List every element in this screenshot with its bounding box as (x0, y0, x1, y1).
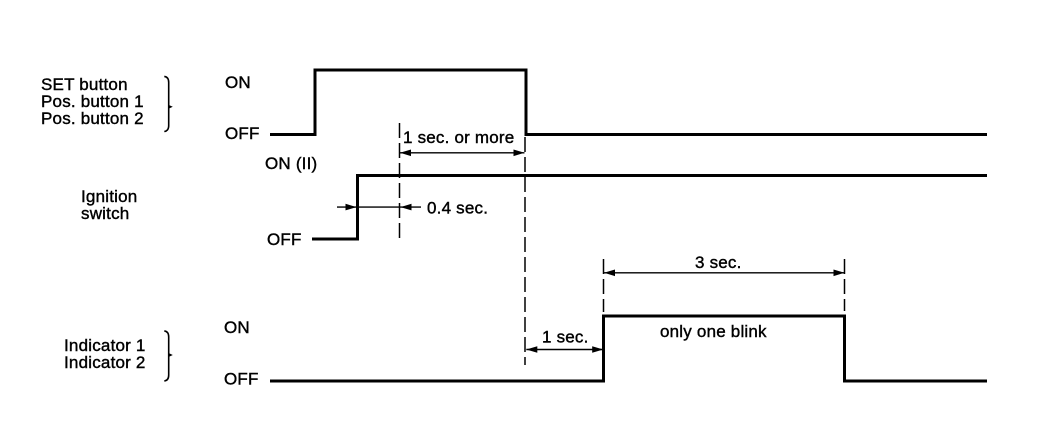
svg-text:1 sec.: 1 sec. (542, 328, 589, 347)
label SET button group (41, 75, 144, 128)
svg-text:OFF: OFF (267, 230, 302, 249)
label Indicator group (64, 336, 146, 372)
svg-text:1 sec. or more: 1 sec. or more (403, 128, 514, 147)
dimension arrow: 1 sec. or more (400, 150, 525, 157)
svg-text:switch: switch (81, 204, 129, 223)
svg-text:only one blink: only one blink (660, 322, 767, 341)
svg-text:3 sec.: 3 sec. (695, 253, 742, 272)
brace for SET button group (164, 76, 173, 131)
label Ignition switch (81, 187, 137, 223)
wire: SET button waveform (270, 70, 987, 135)
svg-text:Pos. button 2: Pos. button 2 (41, 109, 144, 128)
svg-text:Indicator 2: Indicator 2 (64, 353, 146, 372)
dimension arrow: 1 sec. (526, 346, 603, 353)
svg-text:OFF: OFF (225, 124, 260, 143)
guide dashed line at ignition-on reference (399, 123, 401, 238)
svg-text:0.4 sec.: 0.4 sec. (427, 199, 488, 218)
guide dashed line at indicator rise (603, 259, 605, 312)
svg-text:ON (II): ON (II) (265, 154, 317, 173)
dimension arrow: 0.4 sec. (337, 204, 421, 211)
dimension arrow: 3 sec. (604, 270, 845, 277)
guide dashed line at indicator fall (844, 259, 846, 311)
svg-text:OFF: OFF (224, 370, 259, 389)
brace for Indicator group (164, 331, 173, 381)
wire: Ignition switch waveform (312, 176, 987, 240)
svg-text:ON: ON (224, 318, 250, 337)
svg-text:ON: ON (225, 73, 251, 92)
wire: Indicator waveform (270, 316, 987, 381)
guide dashed line at SET release reference (524, 137, 526, 365)
